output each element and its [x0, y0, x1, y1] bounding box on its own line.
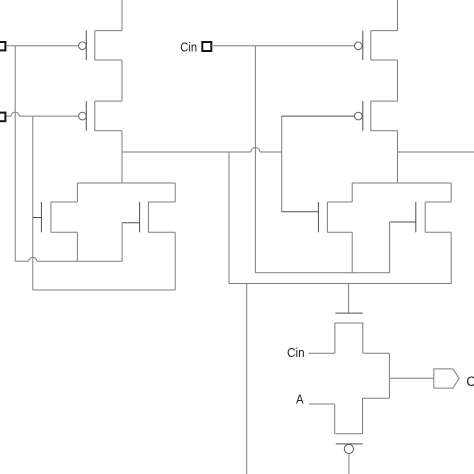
pmos P2 source stub [95, 100, 122, 102]
wire net-Cin horizontal run [255, 272, 389, 274]
wire Cout tap [389, 377, 433, 379]
wire bottom long rail [229, 283, 451, 285]
pmos P1 gate bubble [79, 42, 87, 50]
wire P1-P2 series link [121, 60, 123, 101]
wire net-A horizontal run to N2 gate drop [37, 260, 122, 262]
wire P3-P4 series link [397, 60, 399, 101]
wire P4/N3 gate vertical [281, 116, 283, 212]
wire N4 source drop [450, 232, 452, 283]
wire A pin to P1 gate bubble [6, 45, 79, 47]
wire right pmos output drop [397, 131, 399, 183]
wire N2 drain riser [174, 183, 176, 202]
wire net-Cin vertical drop [254, 46, 256, 273]
pmos P1 source stub [95, 30, 122, 32]
nmos N4 gate wire [390, 221, 416, 223]
pmos P6 gate bubble [344, 444, 353, 453]
wire B pin segment [7, 115, 12, 117]
wire N1 source drop [76, 232, 78, 261]
wire N4 drain riser [450, 183, 452, 202]
nmos N3 gate bar [317, 202, 319, 232]
wire N2 gate drop to net-A [121, 223, 123, 261]
wire N3 source drop [351, 232, 353, 272]
wire left nmos top rail [77, 182, 175, 184]
wire Cin arm [309, 352, 335, 354]
nmos N2 source stub [148, 231, 175, 233]
pmos P3 drain stub [371, 59, 398, 61]
wire net-A horizontal run [15, 260, 29, 262]
wire B to P2 gate bubble [19, 115, 78, 117]
pmos P4 gate wire [282, 115, 355, 117]
wire N1 drain riser [76, 183, 78, 202]
wire hop net-A over net-B [29, 257, 37, 261]
wire Cout node to right edge [398, 151, 474, 153]
pmos P3 gate bar [362, 31, 364, 60]
nmos N1 drain stub [51, 201, 78, 203]
transistor N5 gate stem [348, 284, 350, 314]
wire hop node X over Cin drop [251, 148, 260, 153]
wire node X to P4/N3 gates [260, 151, 282, 153]
nmos N3 gate wire [282, 211, 319, 213]
pmos P4 gate bar [362, 101, 364, 131]
wire N5 right arm [363, 352, 390, 354]
nmos N4 gate bar [415, 202, 417, 232]
wire VDD riser right [397, 0, 399, 31]
svg-text:Cin: Cin [287, 345, 305, 360]
nmos N5 channel [335, 322, 364, 324]
pin Cin [202, 42, 211, 51]
nmos N3 channel [326, 202, 328, 232]
pmos P3 source stub [371, 30, 398, 32]
nmos N1 gate bar [40, 202, 42, 232]
wire hop net-B over net-A [11, 112, 19, 116]
wire N4 gate riser [389, 222, 391, 273]
nmos N5 gate bar [335, 312, 362, 314]
nmos N3 drain stub [327, 201, 352, 203]
pin A [0, 42, 5, 50]
pin B [0, 113, 5, 122]
wire N3 drain riser [351, 183, 353, 202]
pmos P4 channel [370, 101, 372, 131]
nmos N4 channel [424, 202, 426, 232]
pmos P2 gate bar [85, 101, 87, 131]
nmos N1 channel [50, 202, 52, 232]
wire N5-P6 series link [388, 353, 390, 398]
nmos N2 gate wire [122, 222, 140, 224]
nmos N1 gate wire [33, 217, 42, 219]
wire sum branch to bottom edge [246, 284, 248, 474]
wire bottom U right riser [174, 232, 176, 290]
nmos N2 drain stub [148, 201, 175, 203]
pmos P4 drain stub [371, 130, 398, 132]
nmos N4 source stub [425, 231, 451, 233]
wire P6 right arm [363, 397, 390, 399]
pmos P2 channel [94, 101, 96, 131]
pmos P1 drain stub [95, 59, 122, 61]
nmos N5 left stub [334, 323, 336, 353]
wire VDD riser left [121, 0, 123, 31]
pmos P6 left stub [334, 404, 336, 434]
wire bottom U horizontal [33, 289, 175, 291]
pmos P2 gate bubble [79, 112, 87, 120]
wire net-B vertical drop [32, 116, 34, 290]
pmos P3 channel [370, 31, 372, 60]
wire Cin pin to P3 gate bubble [211, 45, 354, 47]
nmos N2 channel [147, 202, 149, 232]
pmos P6 right stub [362, 398, 364, 434]
pmos P3 gate bubble [355, 42, 363, 50]
pmos P4 gate bubble [355, 112, 363, 120]
nmos N4 drain stub [425, 201, 451, 203]
wire A arm [309, 403, 335, 405]
wire left pmos output drop [121, 131, 123, 183]
port Cout [434, 369, 459, 388]
svg-text:Cin: Cin [180, 40, 197, 55]
svg-text:A: A [296, 392, 304, 407]
nmos N5 right stub [362, 323, 364, 353]
wire P6 gate stem to bottom edge [348, 454, 350, 474]
pmos P2 drain stub [95, 130, 122, 132]
pmos P1 channel [94, 31, 96, 60]
nmos N2 gate bar [139, 202, 141, 232]
nmos N3 source stub [327, 231, 352, 233]
wire net-A vertical drop [14, 46, 16, 262]
pmos P6 gate bar [336, 443, 363, 445]
wire node X riser to bottom rail [228, 152, 230, 284]
wire node X horizontal segment [122, 151, 251, 153]
svg-text:Cout: Cout [466, 374, 474, 389]
pmos P4 source stub [371, 100, 398, 102]
pmos P6 channel [335, 433, 362, 435]
nmos N1 source stub [51, 231, 78, 233]
pmos P1 gate bar [85, 31, 87, 60]
wire right nmos top rail [352, 182, 451, 184]
